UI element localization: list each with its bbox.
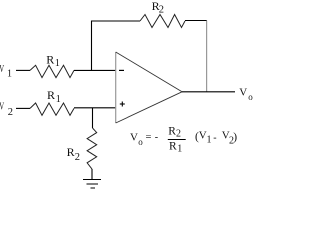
wire inverting input (74, 69, 116, 71)
formula Vo = -(R2/R1)(V1 - V2) (130, 125, 237, 154)
ground (83, 180, 101, 189)
svg-text:1: 1 (177, 144, 182, 155)
svg-text:o: o (248, 92, 253, 102)
resistor R2 bottom (87, 128, 97, 169)
svg-text:o: o (138, 137, 143, 147)
svg-text:1: 1 (207, 134, 212, 145)
node V1 (0, 63, 12, 80)
svg-text:R: R (67, 145, 75, 159)
wire feedback vertical right (206, 21, 208, 92)
svg-text:1: 1 (56, 94, 61, 105)
label R2 bottom (67, 145, 80, 163)
svg-text:2: 2 (75, 152, 80, 163)
svg-text:V: V (0, 63, 4, 75)
node Vo (239, 87, 253, 103)
wire V1 lead (16, 69, 30, 71)
svg-text:2: 2 (176, 129, 181, 140)
svg-text:-: - (155, 132, 158, 143)
op-amp U1 (116, 52, 182, 123)
wire feedback vertical left (91, 21, 93, 71)
svg-text:): ) (233, 132, 237, 144)
svg-text:R: R (169, 141, 177, 153)
wire V2 lead (16, 107, 30, 109)
svg-text:V: V (130, 132, 138, 144)
svg-text:V: V (0, 100, 4, 112)
wire R2 bottom top lead (92, 108, 94, 128)
label R2 top (152, 0, 164, 16)
svg-text:-: - (213, 133, 216, 144)
node V2 (0, 100, 13, 118)
svg-text:R: R (46, 52, 54, 66)
resistor R2 top (140, 15, 185, 28)
wire noninverting input (74, 107, 116, 109)
wire feedback top left (91, 20, 140, 22)
svg-text:1: 1 (55, 58, 60, 69)
svg-text:2: 2 (8, 107, 13, 118)
pin plus (120, 102, 125, 107)
resistor R1 bottom (30, 103, 74, 115)
wire ground lead (91, 169, 93, 180)
svg-text:R: R (47, 88, 55, 102)
svg-text:1: 1 (7, 69, 12, 80)
pin minus (119, 69, 124, 71)
resistor R1 top (30, 65, 74, 77)
label R1 bottom (47, 88, 61, 105)
label R1 top (46, 52, 60, 69)
svg-text:V: V (239, 87, 247, 99)
wire feedback top right (185, 20, 207, 22)
wire output (182, 91, 235, 93)
svg-text:=: = (146, 132, 152, 143)
svg-text:2: 2 (159, 5, 164, 16)
